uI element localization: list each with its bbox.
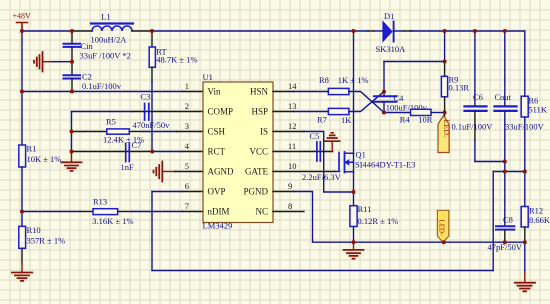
pin 10 stub (black) [273,171,335,173]
svg-text:R10: R10 [27,225,41,235]
svg-text:1nF: 1nF [121,162,135,172]
svg-text:100uH/2A: 100uH/2A [91,35,128,45]
U1 left pin names [208,87,234,217]
svg-text:0.13R: 0.13R [449,83,470,93]
svg-text:C7: C7 [132,140,142,150]
svg-text:+48V: +48V [13,12,32,21]
svg-text:SI4464DY-T1-E3: SI4464DY-T1-E3 [355,160,415,170]
svg-text:10R: 10R [418,114,433,124]
svg-text:L1: L1 [101,12,110,22]
svg-text:8.66K: 8.66K [529,215,550,225]
capacitor Cout [495,31,545,225]
capacitor C3 [133,92,171,131]
wire Vin line (navy) [22,91,182,93]
wire GATE to Q1 (navy) [335,171,340,173]
svg-text:1K: 1K [341,115,352,125]
ground (mid, under divider node) [62,152,82,171]
pin 4 stub (black) [182,151,203,153]
power port +48V [13,12,32,32]
svg-text:357R ± 1%: 357R ± 1% [27,236,66,246]
wire ground to Cin/C2 node (navy) [52,61,72,63]
resistor R12 [521,206,550,228]
pin 13 stub (black) [273,111,294,113]
resistor R5 [103,117,144,145]
wire R11 to sense line (navy) [353,227,355,243]
svg-text:LED.: LED. [442,120,451,138]
resistor RT [149,31,197,82]
port LED+ [438,113,451,153]
svg-text:8: 8 [288,201,292,211]
wire RCT line right (navy) [152,151,182,153]
svg-text:R4: R4 [400,114,411,124]
svg-text:470nF/50v: 470nF/50v [133,120,171,130]
wire RT to RCT line (navy) [151,82,153,152]
svg-text:3.16K ± 1%: 3.16K ± 1% [92,216,133,226]
resistor R7 [317,108,352,125]
svg-text:33uF /100V *2: 33uF /100V *2 [80,51,131,61]
pin 1 stub (black) [182,91,203,93]
wire rail segment to L1 (black) [72,30,92,32]
svg-text:RCT: RCT [208,147,226,157]
svg-text:NC: NC [255,207,268,217]
wire OVP bottom run (navy) [152,270,493,272]
svg-text:10K ± 1%: 10K ± 1% [27,154,62,164]
svg-text:C8: C8 [503,215,513,225]
svg-text:6: 6 [185,181,189,191]
svg-text:C5: C5 [310,131,320,141]
capacitor C2 [64,62,122,92]
wire rail corner to R6 (navy) [524,31,526,96]
capacitor C4 [374,62,428,113]
svg-text:U1: U1 [203,72,213,82]
wire rail RT node to D1 (navy) [152,30,368,32]
svg-text:48.7K ± 1%: 48.7K ± 1% [156,55,197,65]
wire top rail left (navy) [22,30,72,32]
wire D1 cathode stub (black) [394,30,404,32]
pin 6 stub (black) [182,191,203,193]
resistor R9 [441,62,469,113]
wire PGND run (navy) [294,192,525,243]
ground (AGND pin 5, left-pointing) [154,162,176,182]
svg-text:0.12R ± 1%: 0.12R ± 1% [358,216,399,226]
wire to bottom right ground (navy) [524,242,526,273]
wire R4 line (navy) [384,112,411,114]
wire R13 to pin 7 (navy) [118,211,132,213]
svg-text:LED-: LED- [438,220,446,237]
wire R4 to LED node (navy) [431,112,445,114]
wire HSN to R8 (navy) [294,91,328,93]
svg-text:HSP: HSP [251,107,268,117]
svg-text:C3: C3 [141,92,151,102]
pin 3 stub (black) [177,131,203,133]
svg-text:R11: R11 [358,204,372,214]
svg-text:LM3429: LM3429 [203,221,233,231]
svg-text:D1: D1 [384,11,394,21]
svg-text:R7: R7 [317,115,327,125]
svg-text:COMP: COMP [208,107,234,117]
svg-text:SK310A: SK310A [376,44,407,54]
capacitor Cin [64,31,131,62]
pin 5 stub (black) [175,171,203,173]
inductor L1 [91,12,134,45]
pin 11 stub VCC (black) [273,151,333,153]
wire rail to R9 (navy) [444,31,446,62]
svg-text:PGND: PGND [243,187,268,197]
svg-text:5: 5 [185,161,189,171]
diode D1 [376,11,407,54]
wire D1 anode stub (black) [368,30,374,32]
ground (bottom right) [515,273,535,292]
capacitor C8 [488,215,523,253]
svg-text:14: 14 [288,81,297,91]
ground (input, left-pointing) [34,52,52,72]
wire crossover diagonal A (navy) [349,92,384,113]
svg-text:2: 2 [185,101,189,111]
U1 right pin names [243,87,268,217]
svg-text:Vin: Vin [208,87,221,97]
wire R12 to C8 line (navy) [524,227,526,242]
wire OVP to stub (navy) [152,191,182,193]
wire COMP line left part (navy) [72,111,133,113]
wire R6 to divider node (navy) [524,117,526,207]
svg-text:R13: R13 [93,197,107,207]
wire OVP to divider (navy) [493,171,525,173]
resistor R11 [350,204,398,227]
U1 right pin numbers [288,81,297,211]
wire rail D1 to output corner (navy) [410,30,525,32]
power ground (AGND up-pointing at VCC) [325,133,340,152]
pin 9 stub (black) [273,191,294,193]
svg-text:R8: R8 [319,75,329,85]
U1 left pin numbers [185,81,190,211]
wire L1 right to RT node (black) [132,30,152,32]
transistor Q1 [339,150,415,173]
resistor R8 [319,75,368,95]
svg-text:IS: IS [260,127,268,137]
svg-text:13: 13 [288,101,297,111]
wire IS line (navy) [304,132,354,193]
pin 14 stub (black) [273,91,294,93]
svg-text:Cout: Cout [495,92,512,102]
capacitor C6 [452,31,494,162]
wire RCT line left (black) [72,151,153,153]
svg-text:Cin: Cin [81,41,94,51]
svg-text:GATE: GATE [245,167,268,177]
wire C6 bottom to Cout (navy) [475,161,505,163]
wire C4 top to R9 top (navy) [384,61,445,63]
resistor R10 [19,225,65,248]
svg-text:511K: 511K [528,105,547,115]
ground (bottom left) [12,262,32,281]
svg-text:CSH: CSH [208,127,226,137]
svg-text:Q1: Q1 [356,150,366,160]
capacitor C5 [302,131,342,182]
svg-text:7: 7 [185,201,189,211]
svg-text:AGND: AGND [208,167,234,177]
wire R5 to pin 3 (navy) [129,131,143,133]
resistor R4 [400,109,433,124]
svg-text:C6: C6 [473,92,483,102]
pin 12 stub (black) [273,131,304,133]
left bus vertical (navy) [21,31,23,145]
wire crossover diagonal B (navy) [349,92,384,112]
svg-text:3: 3 [185,121,189,131]
svg-text:nDIM: nDIM [208,207,230,217]
wire R1 to R10 (navy) [21,167,23,226]
svg-text:10: 10 [288,161,297,171]
svg-text:9: 9 [288,181,292,191]
port LED- [437,210,448,242]
wire COMP line right part + pin 2 stub (black) [132,111,203,113]
wire OVP down left (navy) [151,192,153,271]
wire nDIM line left (navy) [22,211,80,213]
svg-text:1: 1 [185,81,189,91]
wire Q1 source to R11 (navy) [353,154,355,206]
svg-text:R5: R5 [106,117,116,127]
pin 7 stub (black) [182,211,203,213]
pin 8 stub NC (black) [273,211,304,213]
op-amp U1 body LM3429 [203,72,274,231]
ground (under R11) [344,242,364,258]
svg-text:R12: R12 [529,206,543,216]
resistor R6 [521,96,548,118]
svg-text:0.1uF/100V: 0.1uF/100V [452,122,494,132]
capacitor C7 [121,140,142,172]
svg-text:11: 11 [288,141,296,151]
wire SW node vertical (navy) [353,31,355,154]
svg-text:R1: R1 [27,144,37,154]
svg-text:12: 12 [288,121,297,131]
svg-text:VCC: VCC [249,147,268,157]
svg-text:0.1uF/100v: 0.1uF/100v [82,81,122,91]
svg-text:OVP: OVP [208,187,226,197]
svg-text:2.2uF/6.3V: 2.2uF/6.3V [302,172,342,182]
wire R10 to ground (black) [21,248,23,262]
wire HSP to R7 (navy) [294,111,328,113]
wire mid vertical COMP to gnd (navy) [71,112,73,152]
wire OVP up right (navy) [492,172,494,271]
svg-text:HSN: HSN [250,87,269,97]
resistor R1 [19,144,62,168]
wire CSH line (navy) [72,131,107,133]
resistor R13 [92,197,133,227]
